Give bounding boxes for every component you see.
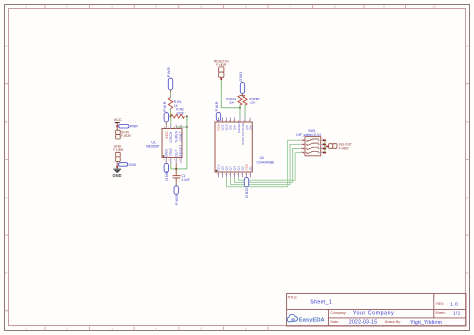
- svg-text:5: 5: [200, 327, 202, 331]
- svg-text:Company:: Company:: [331, 311, 347, 315]
- svg-text:10K: 10K: [229, 101, 234, 105]
- svg-text:F-HDR: F-HDR: [216, 63, 227, 67]
- svg-text:PWR: PWR: [163, 101, 167, 112]
- svg-text:Sheet_1: Sheet_1: [310, 300, 332, 306]
- svg-text:Yigit_Yildirim: Yigit_Yildirim: [410, 320, 442, 326]
- svg-text:7: 7: [289, 5, 291, 9]
- svg-text:3: 3: [111, 327, 113, 331]
- svg-text:Q6: Q6: [248, 125, 252, 130]
- svg-text:U2: U2: [260, 156, 265, 160]
- svg-text:2022-03-15: 2022-03-15: [349, 320, 377, 326]
- svg-text:10: 10: [432, 5, 436, 9]
- svg-text:1.0: 1.0: [450, 301, 458, 307]
- svg-text:CONT: CONT: [179, 131, 183, 141]
- svg-text:GND: GND: [165, 170, 169, 180]
- svg-text:Q1: Q1: [249, 166, 253, 171]
- svg-text:TRIG: TRIG: [169, 148, 173, 157]
- svg-text:PWR: PWR: [175, 194, 179, 205]
- svg-text:TITLE:: TITLE:: [287, 295, 298, 299]
- svg-text:PWR: PWR: [215, 101, 219, 112]
- svg-text:9: 9: [383, 5, 385, 9]
- svg-text:Your Company: Your Company: [353, 311, 394, 317]
- svg-text:1: 1: [25, 327, 27, 331]
- svg-text:RESET: RESET: [179, 145, 183, 157]
- svg-text:OUT: OUT: [174, 149, 178, 156]
- svg-text:B: B: [466, 120, 468, 124]
- svg-text:Sheet:: Sheet:: [435, 311, 445, 315]
- svg-text:NE555P: NE555P: [146, 145, 160, 149]
- svg-text:3: 3: [111, 5, 113, 9]
- svg-text:2: 2: [66, 5, 68, 9]
- svg-text:B: B: [5, 120, 7, 124]
- svg-text:EasyEDA: EasyEDA: [299, 318, 326, 324]
- svg-text:F-HDR: F-HDR: [121, 134, 132, 138]
- svg-text:PWR: PWR: [130, 125, 138, 129]
- svg-text:GND: GND: [239, 71, 243, 81]
- svg-text:4: 4: [155, 327, 157, 331]
- svg-text:1: 1: [25, 5, 27, 9]
- svg-text:GND: GND: [165, 148, 169, 156]
- svg-text:GND: GND: [245, 188, 249, 198]
- svg-text:VCC: VCC: [114, 118, 122, 122]
- svg-text:6: 6: [245, 5, 247, 9]
- svg-text:F-HDR: F-HDR: [113, 148, 124, 152]
- svg-text:6: 6: [245, 327, 247, 331]
- svg-text:F-HDR: F-HDR: [339, 146, 350, 150]
- svg-text:THRES: THRES: [174, 131, 178, 143]
- svg-text:CD4040BE: CD4040BE: [256, 161, 275, 165]
- svg-text:GND: GND: [129, 163, 137, 167]
- svg-text:10K: 10K: [250, 101, 255, 105]
- svg-text:2.2uF: 2.2uF: [182, 178, 190, 182]
- svg-text:Drawn By:: Drawn By:: [385, 320, 401, 324]
- svg-text:4: 4: [155, 5, 157, 9]
- svg-text:1/1: 1/1: [453, 310, 461, 316]
- svg-text:Date:: Date:: [331, 320, 339, 324]
- svg-text:2: 2: [66, 327, 68, 331]
- svg-text:DISCH: DISCH: [169, 131, 173, 143]
- svg-text:REV:: REV:: [436, 302, 444, 306]
- svg-text:8: 8: [334, 5, 336, 9]
- svg-text:GND: GND: [113, 173, 122, 178]
- svg-text:5: 5: [200, 5, 202, 9]
- svg-text:PWR: PWR: [167, 66, 171, 77]
